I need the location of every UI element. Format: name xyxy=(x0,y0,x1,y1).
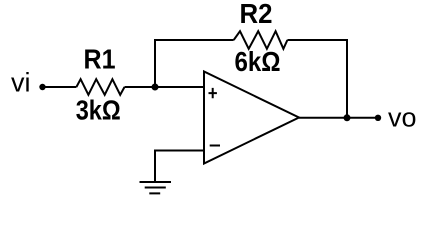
wire minus input to ground leg xyxy=(155,151,204,183)
op-amp plus input marker xyxy=(209,88,217,98)
svg-text:R2: R2 xyxy=(240,0,273,29)
svg-text:vo: vo xyxy=(388,102,417,132)
node output junction xyxy=(344,114,351,121)
wire vi to R1 xyxy=(43,86,77,88)
wire output xyxy=(299,117,378,119)
node A junction xyxy=(152,84,159,91)
svg-text:R1: R1 xyxy=(84,43,116,74)
svg-text:6kΩ: 6kΩ xyxy=(235,46,281,77)
op-amp U1 xyxy=(204,72,299,164)
node vi terminal xyxy=(39,84,45,90)
resistor R1 xyxy=(76,79,124,95)
wire R2 right and down to output node xyxy=(287,40,347,118)
resistor R2 xyxy=(234,31,288,49)
node vo terminal xyxy=(375,115,381,121)
wire R1 to node A xyxy=(125,86,205,88)
wire node A up and right to R2 xyxy=(155,40,234,87)
svg-text:vi: vi xyxy=(11,68,31,98)
ground xyxy=(140,182,172,193)
svg-text:3kΩ: 3kΩ xyxy=(76,94,121,125)
op-amp minus input marker xyxy=(210,145,220,147)
